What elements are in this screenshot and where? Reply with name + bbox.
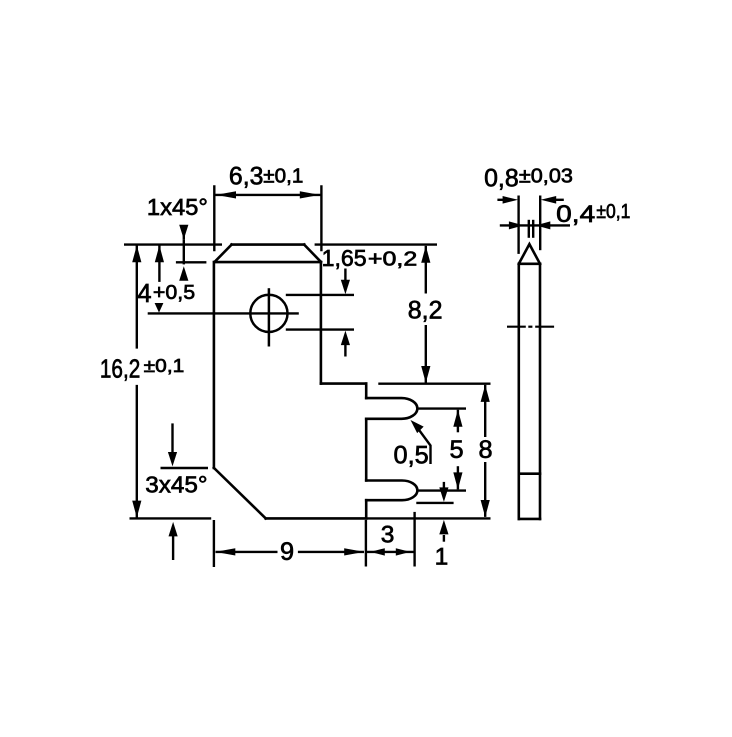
svg-text:16,2: 16,2 xyxy=(100,353,140,383)
svg-text:±0,1: ±0,1 xyxy=(144,355,185,376)
svg-text:8,2: 8,2 xyxy=(408,296,443,324)
svg-text:0,8: 0,8 xyxy=(484,165,519,193)
svg-text:3: 3 xyxy=(381,522,395,549)
svg-text:+0,5: +0,5 xyxy=(153,281,195,304)
svg-text:9: 9 xyxy=(280,538,294,566)
svg-text:0,4: 0,4 xyxy=(556,201,595,228)
svg-text:+0,2: +0,2 xyxy=(368,247,417,270)
svg-text:1,65: 1,65 xyxy=(322,245,367,271)
svg-text:±0,1: ±0,1 xyxy=(596,200,630,223)
svg-text:8: 8 xyxy=(478,436,492,464)
svg-text:6,3: 6,3 xyxy=(229,163,264,190)
svg-text:5: 5 xyxy=(450,436,464,464)
svg-text:±0,1: ±0,1 xyxy=(263,165,303,187)
svg-text:4: 4 xyxy=(137,280,151,308)
svg-text:±0,03: ±0,03 xyxy=(519,165,573,187)
svg-text:3x45°: 3x45° xyxy=(145,471,207,497)
svg-text:1x45°: 1x45° xyxy=(147,194,208,220)
svg-text:0,5: 0,5 xyxy=(394,442,429,469)
svg-text:1: 1 xyxy=(435,544,449,571)
